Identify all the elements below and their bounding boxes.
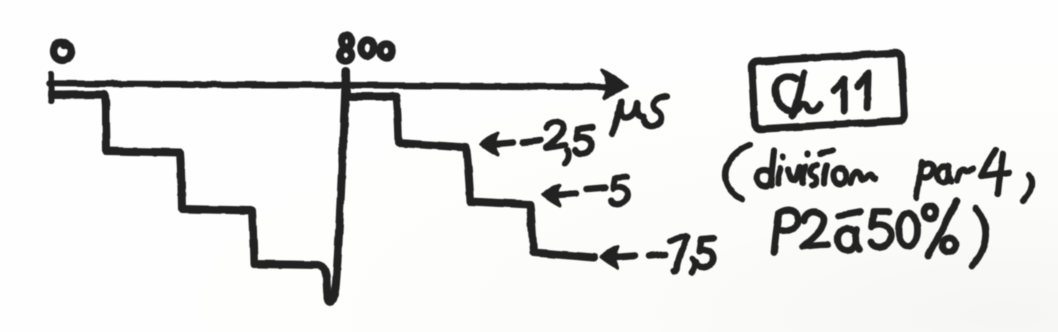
a [937,166,951,182]
i [778,156,783,184]
label micro-s [612,96,667,134]
p (of par) [916,162,933,198]
Ch 11 box (slightly rotated) [751,53,905,130]
r [957,169,973,180]
0 [899,214,918,247]
waveform: left staircase, dip, spike, right staircase [52,71,594,302]
arrow 1 (at -2,5 level) [496,143,513,145]
line "P2 a 50%)" [774,201,986,266]
s [810,165,817,185]
i with tilde [820,150,833,183]
text -7,5 [649,255,665,257]
arrow 2 (at -5 level) [558,194,576,196]
o [833,168,846,184]
comma [1023,175,1032,201]
axis origin tick [48,74,55,101]
P [774,210,798,252]
% [924,206,936,219]
arrow 3 (at -7,5 level) [616,256,635,258]
axis arrowhead [602,70,628,98]
) [972,208,986,266]
text -5 [587,188,605,190]
d [757,150,774,187]
label 0 [54,42,72,60]
4 [981,150,1009,194]
time axis [49,84,608,88]
n (like two bumps) [851,171,875,183]
Ch [775,76,799,112]
2 [803,212,828,247]
a with accent [838,229,859,250]
line "(division par 4," [725,145,1032,201]
v [789,167,800,180]
label 800 : second 0 [381,44,393,58]
label 800 : first 0 [361,40,374,56]
11 [833,79,846,112]
label 800 : digit 8 [342,36,352,48]
text -2,5 [523,140,541,142]
i [802,154,807,183]
5 [871,211,891,247]
